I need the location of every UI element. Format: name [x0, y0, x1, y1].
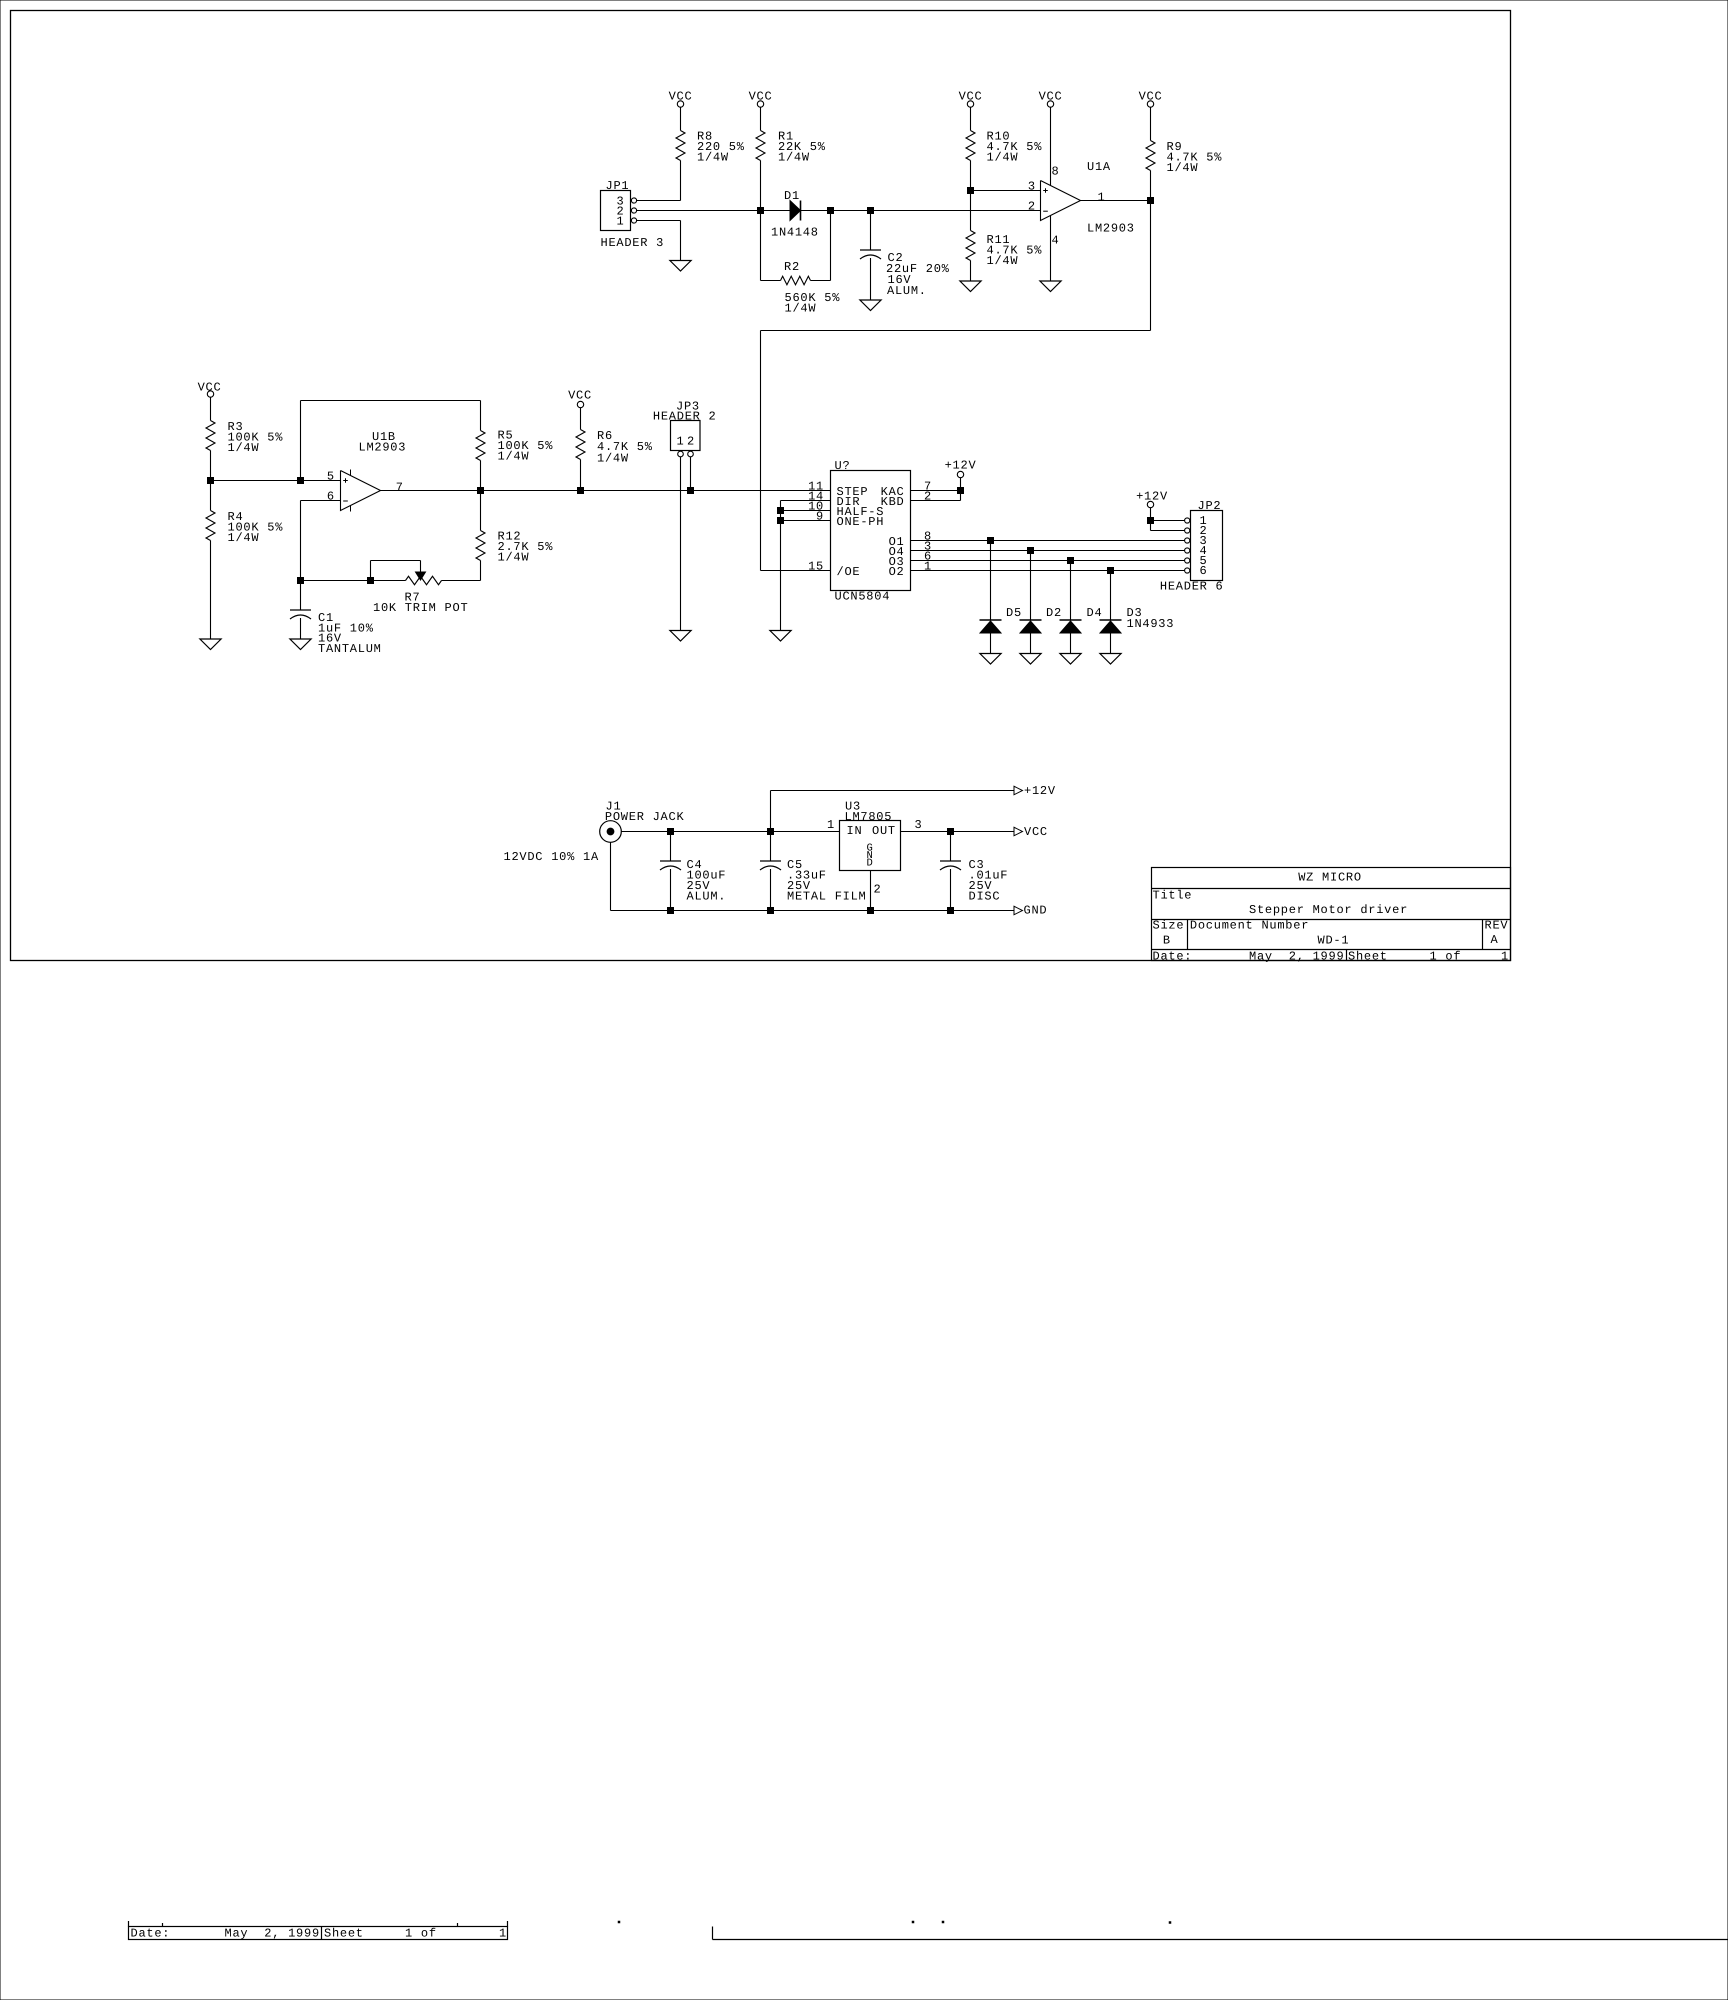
svg-text:VCC: VCC — [198, 380, 222, 394]
svg-text:1: 1 — [1098, 191, 1106, 205]
svg-text:O2: O2 — [889, 565, 905, 579]
svg-text:5: 5 — [327, 470, 335, 484]
svg-text:HEADER 2: HEADER 2 — [653, 410, 717, 424]
svg-text:1: 1 — [827, 818, 835, 832]
svg-text:1: 1 — [677, 435, 685, 449]
svg-text:1: 1 — [617, 215, 625, 229]
svg-text:1/4W: 1/4W — [987, 254, 1019, 268]
svg-text:1: 1 — [499, 1926, 507, 1940]
svg-text:1/4W: 1/4W — [778, 151, 810, 165]
svg-text:3: 3 — [915, 818, 923, 832]
svg-text:GND: GND — [1024, 904, 1048, 918]
svg-text:D4: D4 — [1087, 606, 1103, 620]
svg-text:D5: D5 — [1006, 606, 1022, 620]
svg-text:9: 9 — [816, 510, 824, 524]
svg-text:/OE: /OE — [837, 565, 861, 579]
svg-text:D: D — [867, 858, 874, 870]
svg-text:U?: U? — [835, 459, 851, 473]
svg-text:VCC: VCC — [1139, 90, 1163, 104]
svg-text:WZ MICRO: WZ MICRO — [1298, 871, 1362, 885]
svg-text:May 2, 1999: May 2, 1999 — [1249, 949, 1344, 963]
svg-text:HEADER 3: HEADER 3 — [601, 236, 665, 250]
svg-text:LM2903: LM2903 — [359, 441, 407, 455]
svg-text:UCN5804: UCN5804 — [835, 590, 891, 604]
svg-text:ALUM.: ALUM. — [887, 284, 927, 298]
svg-text:D2: D2 — [1046, 606, 1062, 620]
svg-text:VCC: VCC — [568, 388, 592, 402]
svg-text:Document Number: Document Number — [1190, 919, 1309, 933]
svg-text:2: 2 — [1028, 200, 1036, 214]
svg-text:LM2903: LM2903 — [1087, 222, 1135, 236]
svg-text:1/4W: 1/4W — [597, 452, 629, 466]
svg-text:Sheet: Sheet — [324, 1926, 364, 1940]
svg-text:Date:: Date: — [1153, 949, 1193, 963]
svg-text:R2: R2 — [784, 260, 800, 274]
svg-text:1/4W: 1/4W — [498, 551, 530, 565]
svg-text:1/4W: 1/4W — [498, 450, 530, 464]
svg-text:1: 1 — [924, 560, 932, 574]
svg-text:Size: Size — [1153, 919, 1185, 933]
svg-text:JP2: JP2 — [1198, 499, 1222, 513]
svg-text:OUT: OUT — [872, 824, 896, 838]
svg-text:B: B — [1163, 934, 1171, 948]
svg-text:1/4W: 1/4W — [228, 531, 260, 545]
svg-text:VCC: VCC — [669, 90, 693, 104]
svg-text:D1: D1 — [784, 189, 800, 203]
svg-text:Title: Title — [1153, 889, 1193, 903]
svg-text:1N4148: 1N4148 — [771, 226, 819, 240]
svg-text:1/4W: 1/4W — [987, 151, 1019, 165]
svg-text:Stepper Motor driver: Stepper Motor driver — [1249, 903, 1408, 917]
svg-text:VCC: VCC — [1039, 90, 1063, 104]
svg-text:May 2, 1999: May 2, 1999 — [225, 1926, 320, 1940]
svg-text:POWER JACK: POWER JACK — [605, 810, 685, 824]
svg-text:HEADER 6: HEADER 6 — [1160, 580, 1224, 594]
svg-text:6: 6 — [327, 490, 335, 504]
svg-text:1 of: 1 of — [405, 1926, 437, 1940]
svg-text:2: 2 — [924, 490, 932, 504]
svg-text:8: 8 — [1052, 165, 1060, 179]
svg-text:1 of: 1 of — [1430, 949, 1462, 963]
svg-text:+12V: +12V — [945, 459, 977, 473]
svg-text:WD-1: WD-1 — [1318, 934, 1350, 948]
svg-text:VCC: VCC — [1024, 825, 1048, 839]
svg-text:2: 2 — [687, 435, 695, 449]
svg-text:6: 6 — [1200, 564, 1208, 578]
svg-text:IN: IN — [847, 824, 863, 838]
svg-text:VCC: VCC — [749, 90, 773, 104]
svg-text:2: 2 — [874, 883, 882, 897]
svg-text:METAL FILM: METAL FILM — [787, 890, 867, 904]
svg-text:VCC: VCC — [959, 90, 983, 104]
svg-text:KBD: KBD — [881, 495, 905, 509]
svg-text:7: 7 — [396, 481, 404, 495]
svg-text:DISC: DISC — [969, 890, 1001, 904]
svg-text:Sheet: Sheet — [1348, 949, 1388, 963]
svg-text:1/4W: 1/4W — [697, 151, 729, 165]
svg-text:1/4W: 1/4W — [228, 441, 260, 455]
svg-text:1/4W: 1/4W — [1167, 161, 1199, 175]
svg-text:A: A — [1491, 933, 1499, 947]
svg-text:ONE-PH: ONE-PH — [837, 515, 885, 529]
svg-text:1: 1 — [1501, 949, 1509, 963]
svg-text:ALUM.: ALUM. — [687, 890, 727, 904]
svg-text:15: 15 — [808, 560, 824, 574]
svg-text:JP1: JP1 — [606, 179, 630, 193]
svg-text:LM7805: LM7805 — [845, 810, 893, 824]
svg-text:1N4933: 1N4933 — [1127, 617, 1175, 631]
svg-text:4: 4 — [1052, 234, 1060, 248]
svg-text:1/4W: 1/4W — [785, 302, 817, 316]
svg-text:+12V: +12V — [1024, 784, 1056, 798]
svg-text:TANTALUM: TANTALUM — [318, 642, 382, 656]
svg-text:Date:: Date: — [131, 1926, 171, 1940]
svg-text:12VDC 10% 1A: 12VDC 10% 1A — [504, 850, 599, 864]
svg-text:10K TRIM POT: 10K TRIM POT — [373, 601, 468, 615]
svg-text:U1A: U1A — [1087, 160, 1111, 174]
svg-text:3: 3 — [1028, 180, 1036, 194]
svg-text:REV: REV — [1485, 919, 1509, 933]
